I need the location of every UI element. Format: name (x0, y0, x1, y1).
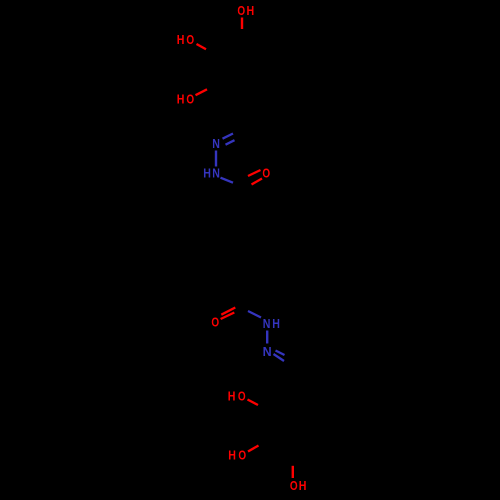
bond HN-C(=O) top, blue half (221, 178, 234, 183)
svg-text:O: O (290, 480, 298, 493)
top ring (carbon skeleton, black on black) (220, 41, 266, 97)
svg-text:O: O (262, 168, 270, 181)
svg-text:H: H (228, 390, 236, 404)
svg-text:H: H (177, 33, 185, 47)
bond C3'-O3' (248, 446, 259, 452)
imine double bond N=CH (bottom), blue halves (274, 351, 285, 362)
hydrazide N-N bond (top) (215, 151, 217, 167)
amide label NH (bottom) (263, 317, 280, 331)
amide label HN (top) (203, 167, 220, 181)
svg-text:O: O (186, 34, 194, 47)
svg-text:H: H (228, 449, 236, 463)
bond C2-O2 (196, 89, 208, 95)
svg-text:O: O (186, 94, 194, 107)
carbonyl double bond C=O (top), red halves (248, 170, 262, 185)
svg-text:H: H (272, 317, 280, 331)
svg-text:H: H (247, 4, 255, 18)
bottom ring (carbon skeleton, black on black) (270, 372, 317, 452)
svg-text:H: H (177, 93, 185, 107)
hydroxyl label O2 (lower left HO) (177, 93, 195, 107)
svg-text:H: H (203, 167, 211, 181)
bond C2'-O2' (248, 400, 259, 406)
hydroxyl label O4 (top OH) (237, 4, 254, 18)
hydroxyl label O2' (bottom ring upper HO) (228, 390, 246, 404)
central benzene ring (black on black) (228, 193, 272, 307)
bond C4-O4 (241, 18, 243, 30)
svg-text:N: N (263, 317, 271, 331)
bond C3-O3 (197, 44, 207, 49)
svg-text:H: H (299, 479, 307, 493)
hydroxyl label O4' (bottom OH) (290, 479, 306, 493)
hydroxyl label O3 (upper left HO) (177, 33, 195, 47)
hydroxyl label O3' (bottom ring lower HO) (228, 449, 246, 463)
svg-text:O: O (238, 450, 246, 463)
bond C4'-O4' (bottom vertical) (292, 466, 294, 478)
svg-text:N: N (263, 345, 272, 359)
svg-text:O: O (238, 391, 246, 404)
carbonyl double bond C=O (bottom), red halves (221, 308, 236, 320)
hydrazide N-N bond (bottom) (266, 331, 268, 344)
imine double bond CH=N (top), blue halves (223, 134, 235, 145)
svg-text:N: N (212, 167, 220, 181)
svg-text:N: N (212, 137, 220, 151)
svg-text:O: O (237, 5, 245, 18)
bond C(=O)-NH bottom, blue half (248, 311, 261, 318)
svg-text:O: O (211, 317, 219, 330)
